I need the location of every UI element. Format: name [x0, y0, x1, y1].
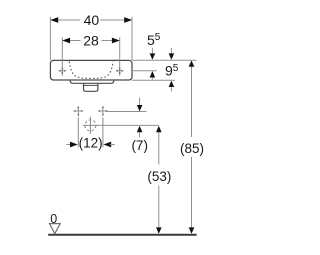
dim 28 extension line right [119, 37, 121, 60]
basin bottom level line (right extension) [132, 79, 175, 81]
fixing hole level line (right extension) [106, 111, 147, 113]
dim 40 extension line right [131, 17, 133, 61]
dim (53) vertical line [158, 132, 160, 165]
dim (12) extension line left [77, 118, 79, 148]
svg-text:(85): (85) [180, 141, 204, 156]
svg-text:40: 40 [84, 12, 100, 28]
fixing hole marker left [73, 106, 83, 116]
dim (7) down arrow [137, 98, 143, 112]
basin outline [50, 60, 132, 80]
dim 28 extension line left [61, 37, 63, 60]
dim (12) extension line right [102, 118, 104, 148]
svg-text:(53): (53) [147, 169, 171, 184]
dim 28 line [62, 40, 119, 42]
dim (12) left arrow [66, 142, 78, 148]
drain bar under basin [70, 81, 114, 84]
dim (85) vertical line [191, 67, 193, 138]
dim 40 line [50, 19, 132, 21]
tap hole extension line right [119, 60, 121, 75]
drain crosshair [83, 117, 99, 134]
dim (12) right arrow [103, 142, 115, 148]
dim 5.5 up arrow [150, 71, 156, 80]
dim 9.5 down arrow [169, 48, 175, 60]
tap hole marker left [58, 67, 66, 75]
svg-text:(7): (7) [131, 138, 148, 153]
svg-text:(12): (12) [79, 135, 103, 150]
tailpiece flange line [84, 84, 98, 86]
tap hole level line (right extension) [132, 70, 157, 72]
dim (7) up arrow [137, 126, 143, 138]
trap tailpiece [84, 84, 98, 92]
dim 40 left arrow [50, 17, 58, 23]
dim 28 right arrow [112, 38, 120, 44]
dim 9.5 up arrow [169, 81, 175, 92]
dim (85) bottom arrow [189, 227, 195, 233]
svg-text:28: 28 [83, 33, 99, 49]
dim (53) bottom arrow [156, 227, 162, 233]
dim (85) top arrow [189, 60, 195, 66]
basin top level line (right extension) [132, 59, 197, 61]
drain level line (right extension) [99, 124, 159, 126]
floor line [48, 234, 196, 236]
dim (53) top arrow [156, 126, 162, 132]
dim 5.5 down arrow [150, 48, 156, 60]
dim 40 right arrow [124, 17, 132, 23]
datum triangle [50, 224, 61, 234]
tap hole extension line left [61, 60, 63, 75]
fixing hole marker right [98, 106, 108, 116]
tap hole marker right [116, 67, 124, 75]
dim 40 extension line left [49, 17, 51, 61]
dim 28 left arrow [62, 38, 70, 44]
bowl dashed outline [69, 61, 113, 78]
